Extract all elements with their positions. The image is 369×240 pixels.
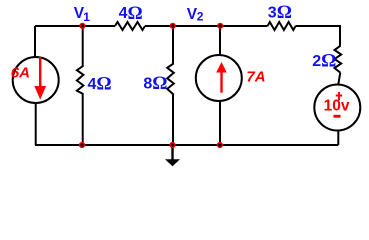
wire left rail top [34,26,36,58]
voltage source VS1 10v circle [314,85,360,131]
junction dot top of 7A [217,23,223,29]
wire branch 8ohm upper [172,26,174,64]
node V1 junction dot [79,23,85,29]
node V2 junction dot [170,23,176,29]
svg-text:2Ω: 2Ω [312,51,336,72]
node V1 label [74,5,90,24]
wire left rail bottom [35,103,37,145]
arrow of 6A source [34,57,46,100]
minus sign of 10v [334,115,341,118]
junction dot bottom of 4ohm [79,142,85,148]
svg-text:6A: 6A [11,65,30,82]
resistor R3 8ohm vertical [167,63,174,95]
value label 2ohm [312,51,336,72]
wire bottom rail [35,144,338,146]
value label 7A [246,68,265,85]
wire 2ohm to source [338,73,340,85]
wire top-left segment [35,25,115,27]
wire branch V1 upper [82,26,84,66]
resistor R4 3ohm horizontal [268,22,296,30]
svg-text:7A: 7A [246,68,265,85]
junction dot bottom of 7A [217,142,223,148]
wire branch 7A upper [219,26,221,55]
value label 10v [324,97,350,114]
svg-text:3Ω: 3Ω [268,2,292,23]
wire source to bottom right [337,130,339,145]
wire top-middle segment [145,25,268,27]
current source IS1 6A circle [13,57,59,103]
resistor R5 2ohm vertical [335,46,342,73]
junction dot ground node [169,142,175,148]
value label 6A [11,65,30,82]
resistor R2 4ohm vertical [77,66,84,94]
value label 3ohm [268,2,292,23]
value label 4ohm vertical [88,73,112,94]
node V2 label [187,6,204,24]
svg-text:2: 2 [197,9,204,23]
current source IS2 7A circle [196,55,242,101]
svg-text:4Ω: 4Ω [88,73,112,94]
plus sign of 10v [336,92,342,100]
wire branch V1 lower [82,94,84,145]
wire branch 8ohm lower [172,95,174,145]
value label 8ohm [143,73,167,94]
wire top-right segment with corner [296,26,341,46]
resistor R1 4ohm horizontal [115,22,145,30]
value label 4ohm top [119,3,143,24]
svg-text:10v: 10v [324,97,350,114]
wire branch 7A lower [219,101,221,145]
svg-text:1: 1 [83,10,90,24]
svg-text:8Ω: 8Ω [143,73,167,94]
ground [165,145,180,166]
arrow of 7A source [216,62,227,93]
svg-text:4Ω: 4Ω [119,3,143,24]
